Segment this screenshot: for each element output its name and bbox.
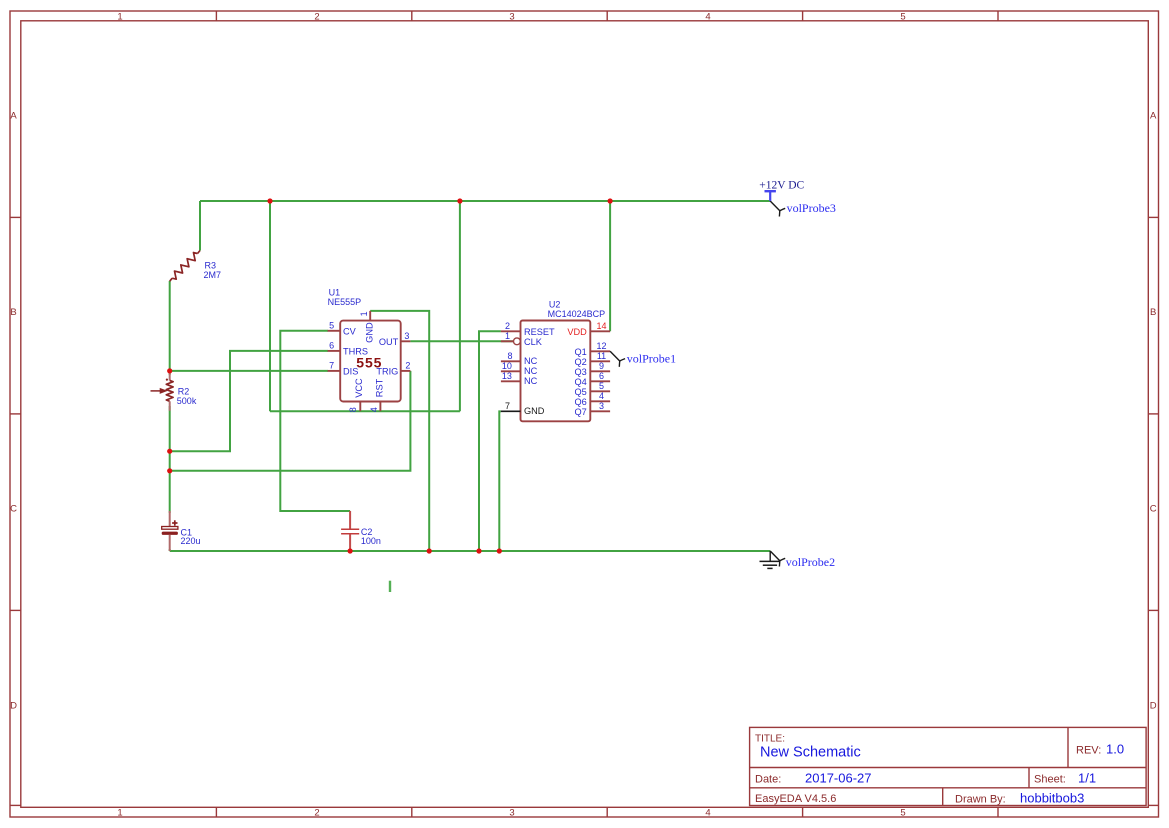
svg-text:12: 12 [596,341,606,351]
svg-text:7: 7 [505,401,510,411]
svg-text:3: 3 [509,807,514,818]
svg-text:C: C [10,503,17,514]
svg-text:CV: CV [343,326,357,336]
svg-text:hobbitbob3: hobbitbob3 [1020,790,1084,805]
svg-text:4: 4 [599,391,604,401]
svg-text:6: 6 [599,371,604,381]
svg-text:3: 3 [404,331,409,341]
svg-text:6: 6 [329,341,334,351]
svg-text:2017-06-27: 2017-06-27 [805,771,872,786]
svg-text:220u: 220u [181,536,201,546]
svg-text:New Schematic: New Schematic [760,745,861,761]
svg-text:NC: NC [524,366,538,376]
svg-text:8: 8 [348,407,358,412]
svg-text:2: 2 [314,11,319,22]
svg-text:R2: R2 [178,386,190,396]
svg-text:REV:: REV: [1076,745,1101,757]
svg-text:TITLE:: TITLE: [755,734,785,745]
svg-text:2M7: 2M7 [204,270,222,280]
svg-text:5: 5 [329,321,334,331]
svg-text:GND: GND [364,322,374,343]
svg-text:MC14024BCP: MC14024BCP [548,309,606,319]
svg-text:4: 4 [369,407,379,412]
svg-text:GND: GND [524,406,545,416]
svg-text:VDD: VDD [567,327,587,337]
svg-text:1: 1 [117,807,122,818]
svg-text:5: 5 [599,381,604,391]
svg-text:A: A [1150,110,1157,121]
svg-text:13: 13 [502,371,512,381]
svg-text:volProbe3: volProbe3 [787,201,836,215]
svg-text:555: 555 [356,355,382,371]
svg-text:volProbe2: volProbe2 [786,555,835,569]
svg-text:8: 8 [507,351,512,361]
svg-text:RST: RST [375,378,385,397]
svg-text:Q4: Q4 [575,377,587,387]
svg-text:Sheet:: Sheet: [1034,774,1066,786]
svg-text:2: 2 [314,807,319,818]
svg-text:CLK: CLK [524,337,543,347]
svg-text:7: 7 [329,361,334,371]
svg-text:2: 2 [405,361,410,371]
svg-text:EasyEDA V4.5.6: EasyEDA V4.5.6 [755,793,836,805]
svg-text:4: 4 [705,807,710,818]
svg-text:R3: R3 [205,261,217,271]
svg-text:Q2: Q2 [575,357,587,367]
svg-text:9: 9 [599,361,604,371]
svg-text:A: A [10,110,17,121]
svg-text:Q3: Q3 [575,367,587,377]
svg-text:NC: NC [524,356,538,366]
svg-text:2: 2 [505,321,510,331]
svg-text:1.0: 1.0 [1106,742,1124,757]
svg-text:B: B [10,307,16,318]
svg-text:Q5: Q5 [575,387,587,397]
svg-text:OUT: OUT [379,337,399,347]
svg-text:Drawn By:: Drawn By: [955,793,1006,805]
svg-text:Q1: Q1 [575,347,587,357]
svg-text:14: 14 [596,321,606,331]
svg-text:NE555P: NE555P [328,297,362,307]
svg-text:1: 1 [359,311,369,316]
svg-text:D: D [1150,700,1157,711]
svg-text:Date:: Date: [755,774,781,786]
svg-text:500k: 500k [177,396,197,406]
svg-text:1: 1 [505,331,510,341]
svg-text:5: 5 [900,11,905,22]
svg-text:D: D [10,700,17,711]
svg-text:Q6: Q6 [575,397,587,407]
svg-text:1/1: 1/1 [1078,771,1096,786]
svg-text:1: 1 [117,11,122,22]
svg-text:5: 5 [900,807,905,818]
svg-text:VCC: VCC [354,378,364,398]
svg-text:NC: NC [524,376,538,386]
svg-text:C: C [1150,503,1157,514]
svg-text:3: 3 [599,401,604,411]
svg-text:3: 3 [509,11,514,22]
svg-text:10: 10 [502,361,512,371]
svg-text:volProbe1: volProbe1 [627,352,676,366]
svg-text:Q7: Q7 [575,407,587,417]
svg-text:RESET: RESET [524,327,555,337]
svg-text:11: 11 [597,351,606,361]
svg-text:+12V DC: +12V DC [759,180,804,192]
svg-text:B: B [1150,307,1156,318]
svg-text:100n: 100n [361,536,381,546]
svg-text:4: 4 [705,11,710,22]
